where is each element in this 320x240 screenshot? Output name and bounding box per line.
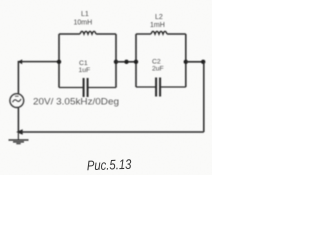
- tank2 right rail: [185, 34, 187, 87]
- inductor L1: [59, 31, 116, 34]
- wire from source bottom to ground rail: [17, 108, 19, 132]
- value 10mH: [74, 20, 93, 27]
- capacitor C1: [59, 78, 116, 97]
- value label 20V/3.05kHz/0Deg: [33, 97, 119, 107]
- value 1mH: [150, 22, 165, 29]
- inductor L2: [136, 31, 186, 34]
- value 1uF: [79, 67, 91, 74]
- paper noise (decorative): [0, 0, 1, 1]
- label C2: [152, 59, 161, 66]
- ground: [9, 132, 29, 144]
- node junction dot tank2-left: [134, 60, 138, 64]
- value 2uF: [152, 65, 164, 72]
- node corner dot at top-right: [201, 60, 205, 64]
- tank1 left rail: [58, 34, 60, 88]
- node junction dot tank2-right: [184, 60, 188, 64]
- wire from source top to tank1 left rail: [18, 62, 59, 94]
- label L1: [81, 11, 89, 18]
- capacitor C2: [136, 78, 186, 97]
- node junction dot tank1-left: [57, 60, 61, 64]
- wire between tanks: [116, 61, 136, 63]
- bottom rail wire: [18, 131, 203, 133]
- caption Рис.5.13: [87, 157, 132, 174]
- label C1: [79, 60, 88, 67]
- node corner marker at source top wire: [18, 59, 22, 64]
- output wire to right vertical: [186, 61, 204, 63]
- right vertical return wire: [203, 62, 205, 132]
- node corner marker at bottom-left: [16, 129, 23, 135]
- label L2: [155, 14, 163, 21]
- tank2 left rail: [135, 34, 137, 87]
- tank1 right rail: [115, 34, 117, 88]
- AC source V1: [10, 94, 24, 108]
- node junction dot mid: [124, 60, 128, 64]
- node junction dot tank1-right: [114, 60, 118, 64]
